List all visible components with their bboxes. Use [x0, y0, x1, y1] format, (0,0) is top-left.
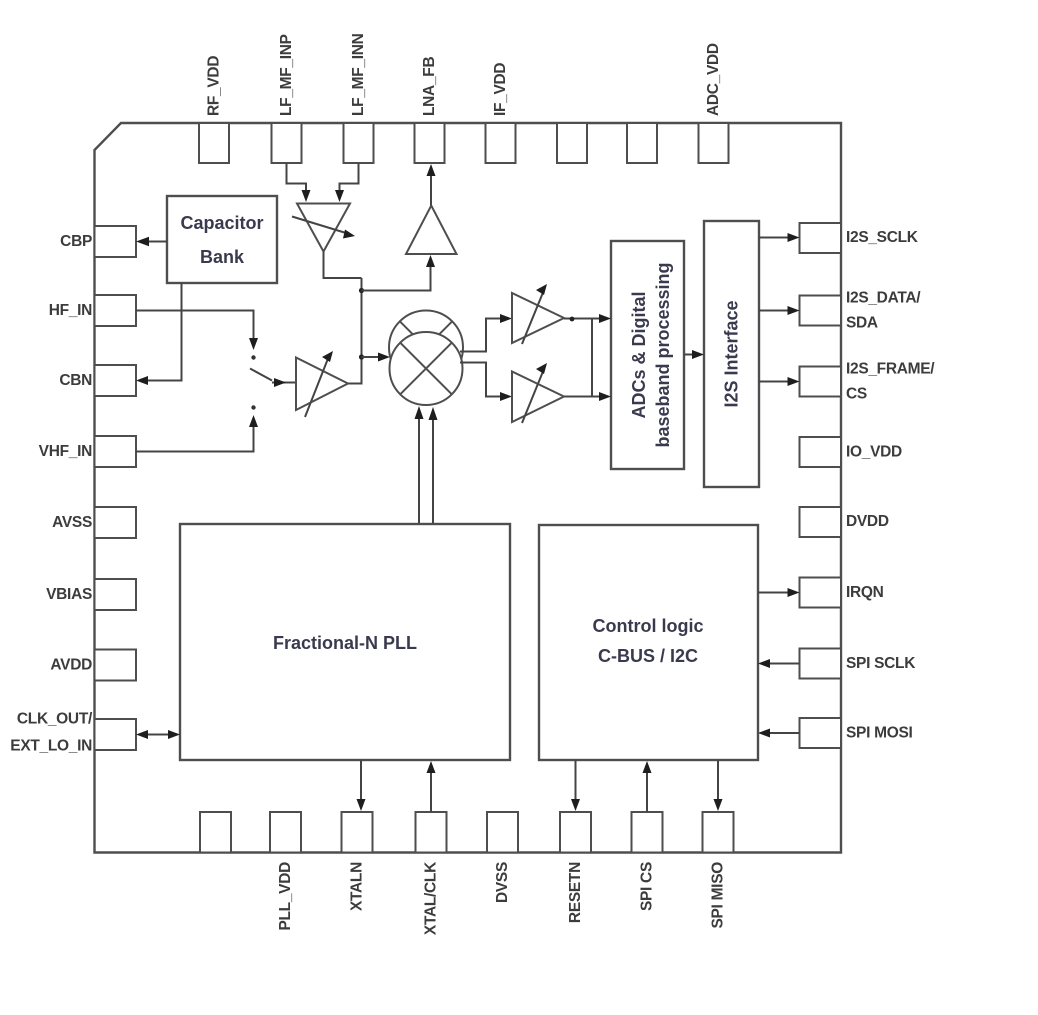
- svg-text:SPI SCLK: SPI SCLK: [846, 655, 916, 672]
- wire ADC box to I2S interface (arrow right): [684, 350, 704, 359]
- wire VHF_IN pin to switch bottom contact (arrow up): [136, 415, 258, 452]
- pin label IRQN: [846, 584, 884, 601]
- pin CLK_OUT/EXT_LO_IN (left): [95, 719, 137, 750]
- pin AVDD (left): [95, 650, 137, 681]
- svg-text:DVDD: DVDD: [846, 513, 889, 530]
- pin label XTALN: [349, 862, 366, 911]
- wire HF_IN pin to switch top contact (arrow down): [136, 311, 258, 351]
- svg-text:Bank: Bank: [200, 247, 245, 267]
- pin label PLL_VDD: [277, 862, 294, 931]
- wire Capacitor Bank to CBP pin (arrow left): [136, 237, 167, 247]
- pin label I2S_SCLK: [846, 229, 919, 246]
- wire SPI CS pin to Control logic (arrow up): [643, 761, 652, 812]
- svg-text:VHF_IN: VHF_IN: [39, 443, 92, 460]
- svg-text:AVDD: AVDD: [50, 657, 92, 674]
- pin PLL_VDD (bottom): [270, 812, 301, 853]
- pin label CBP: [60, 233, 92, 250]
- pin label HF_IN: [49, 302, 92, 319]
- pin label SPI CS: [639, 862, 656, 911]
- svg-text:CLK_OUT/: CLK_OUT/: [17, 711, 93, 728]
- pin I2S_DATA/SDA (right): [800, 296, 842, 326]
- wire I2S interface to I2S_FRAME pin (arrow right): [759, 377, 800, 386]
- pin label AVDD: [50, 657, 92, 674]
- pin label ADC_VDD: [705, 43, 722, 116]
- pin VHF_IN (left): [95, 436, 137, 467]
- svg-text:XTALN: XTALN: [349, 862, 366, 911]
- pin label XTAL/CLK: [423, 861, 440, 935]
- svg-text:AVSS: AVSS: [52, 514, 92, 531]
- pin DVSS (bottom): [487, 812, 518, 853]
- svg-text:DVSS: DVSS: [494, 862, 511, 903]
- pin label DVSS: [494, 862, 511, 903]
- wire SPI MOSI pin to Control logic (arrow left): [758, 729, 800, 738]
- pin top unlabeled 7: [627, 123, 657, 163]
- pin RF_VDD (top): [199, 123, 229, 163]
- pin ADC_VDD (top): [699, 123, 729, 163]
- pin I2S_FRAME/CS (right): [800, 367, 842, 397]
- svg-text:IF_VDD: IF_VDD: [492, 63, 509, 116]
- pin XTAL/CLK (bottom): [416, 812, 447, 853]
- pin label CLK_OUT/EXT_LO_IN: [10, 711, 93, 755]
- pin VBIAS (left): [95, 579, 137, 610]
- pin RESETN (bottom): [560, 812, 591, 853]
- wire CLK_OUT/EXT_LO_IN pin to PLL (double-headed arrow): [136, 730, 180, 739]
- wire SPI SCLK pin to Control logic (arrow left): [758, 659, 800, 668]
- pin XTALN (bottom): [342, 812, 373, 853]
- pin label IF_VDD: [492, 63, 509, 116]
- pin label SPI MISO: [710, 862, 727, 929]
- VGA A1 (HF/VHF front-end, variable gain amp): [296, 351, 348, 417]
- block Capacitor Bank U1: [167, 196, 277, 283]
- pin label SPI MOSI: [846, 725, 913, 742]
- svg-text:Control logic: Control logic: [593, 616, 704, 636]
- svg-text:LF_MF_INP: LF_MF_INP: [278, 34, 295, 116]
- pin IO_VDD (right): [800, 437, 842, 467]
- block Fractional-N PLL U2: [180, 524, 510, 760]
- pin label RESETN: [567, 862, 584, 923]
- switch SW1 bottom contact: [251, 405, 255, 409]
- wire PLL LO output to mixer (double lines, arrows up): [415, 406, 438, 524]
- pin top unlabeled 6: [557, 123, 587, 163]
- chip body outline (chamfered top-left): [95, 123, 842, 853]
- wire I/Q tie vertical bus: [591, 319, 593, 397]
- svg-text:C-BUS / I2C: C-BUS / I2C: [598, 646, 698, 666]
- svg-text:SPI MOSI: SPI MOSI: [846, 725, 913, 742]
- pin label I2S_FRAME/CS: [846, 361, 935, 403]
- pin LF_MF_INN (top): [344, 123, 374, 163]
- svg-text:I2S_SCLK: I2S_SCLK: [846, 229, 919, 246]
- wire Control logic to RESETN pin (arrow down): [571, 760, 580, 811]
- pin DVDD (right): [800, 507, 842, 537]
- svg-text:XTAL/CLK: XTAL/CLK: [423, 861, 440, 935]
- svg-text:LF_MF_INN: LF_MF_INN: [350, 33, 367, 116]
- pin label LF_MF_INN: [350, 33, 367, 116]
- svg-text:I2S Interface: I2S Interface: [722, 300, 742, 407]
- pin label I2S_DATA/SDA: [846, 290, 921, 332]
- switch SW1 lever and pole wire to VGA A1: [250, 369, 296, 388]
- svg-text:baseband processing: baseband processing: [653, 262, 673, 447]
- svg-text:Capacitor: Capacitor: [180, 213, 263, 233]
- wire VGA A2 output to J2 bus: [324, 252, 362, 279]
- pin bottom unlabeled 1: [200, 812, 231, 853]
- node J2 (LNA branch junction): [359, 288, 364, 293]
- wire Control logic to IRQN pin (arrow right): [758, 588, 800, 597]
- pin AVSS (left): [95, 507, 137, 538]
- wire I2S interface to I2S_DATA pin (arrow right): [759, 306, 800, 315]
- svg-text:SPI CS: SPI CS: [639, 862, 656, 911]
- block Control logic C-BUS / I2C U3: [539, 525, 758, 760]
- wire XTAL/CLK pin to PLL (arrow up): [427, 761, 436, 812]
- VGA A2 (LF/MF input amp, down-pointing): [292, 204, 355, 252]
- svg-text:PLL_VDD: PLL_VDD: [277, 862, 294, 931]
- pin label SPI SCLK: [846, 655, 916, 672]
- svg-text:ADC_VDD: ADC_VDD: [705, 43, 722, 116]
- svg-text:ADCs & Digital: ADCs & Digital: [629, 291, 649, 418]
- svg-text:CBP: CBP: [60, 233, 92, 250]
- pin LF_MF_INP (top): [272, 123, 302, 163]
- pin IRQN (right): [800, 578, 842, 608]
- wire LF_MF_INN pin to VGA A2 (arrow down): [335, 163, 359, 202]
- svg-text:CBN: CBN: [59, 372, 92, 389]
- pin SPI MOSI (right): [800, 718, 842, 748]
- pin label LNA_FB: [421, 57, 438, 116]
- pin label CBN: [59, 372, 92, 389]
- svg-text:LNA_FB: LNA_FB: [421, 57, 438, 116]
- wire I2S interface to I2S_SCLK pin (arrow right): [759, 233, 800, 242]
- svg-text:Fractional-N PLL: Fractional-N PLL: [273, 633, 417, 653]
- mixer M1 (quadrature mixer, two overlapped circles): [389, 311, 463, 406]
- pin HF_IN (left): [95, 295, 137, 326]
- pin label IO_VDD: [846, 444, 902, 461]
- wire LNA A3 output to LNA_FB pin (arrow up): [427, 164, 436, 206]
- block ADCs & Digital baseband processing U4: [611, 241, 684, 469]
- node J1 (mixer input junction): [359, 354, 364, 359]
- LNA A3 (up-pointing amp): [406, 206, 457, 255]
- svg-text:CS: CS: [846, 386, 867, 403]
- svg-text:RESETN: RESETN: [567, 862, 584, 923]
- pin label DVDD: [846, 513, 889, 530]
- pin SPI MISO (bottom): [703, 812, 734, 853]
- pin label VBIAS: [46, 586, 92, 603]
- pin I2S_SCLK (right): [800, 223, 842, 253]
- wire J2 to LNA input (arrow up): [362, 255, 436, 291]
- pin IF_VDD (top): [486, 123, 516, 163]
- wire VGA A4 output to ADC box (arrow right): [564, 314, 611, 323]
- wire J1 to mixer RF input (arrow right): [362, 353, 391, 362]
- node J3 on I output: [570, 317, 575, 322]
- wire VGA A1 output to LO node vertical bus: [348, 278, 362, 384]
- wire mixer I output to VGA A4 (arrow right): [460, 314, 512, 352]
- wire Capacitor Bank bottom to CBN pin (arrow left): [136, 283, 182, 385]
- pin SPI CS (bottom): [632, 812, 663, 853]
- svg-text:RF_VDD: RF_VDD: [206, 56, 223, 116]
- VGA A4 (I-path amp): [512, 284, 564, 344]
- svg-text:VBIAS: VBIAS: [46, 586, 92, 603]
- pin LNA_FB (top): [415, 123, 445, 163]
- block I2S interface U5: [704, 221, 759, 487]
- svg-text:SDA: SDA: [846, 315, 878, 332]
- pin CBN (left): [95, 365, 137, 396]
- pin label LF_MF_INP: [278, 34, 295, 116]
- wire VGA A5 output to ADC box (arrow right): [564, 392, 611, 401]
- pin label VHF_IN: [39, 443, 92, 460]
- svg-text:SPI MISO: SPI MISO: [710, 862, 727, 929]
- svg-text:EXT_LO_IN: EXT_LO_IN: [10, 738, 92, 755]
- pin SPI SCLK (right): [800, 649, 842, 679]
- svg-text:I2S_DATA/: I2S_DATA/: [846, 290, 921, 307]
- switch SW1 top contact: [251, 355, 255, 359]
- wire PLL to XTALN pin (arrow down): [357, 760, 366, 811]
- pin CBP (left): [95, 226, 137, 257]
- svg-text:HF_IN: HF_IN: [49, 302, 92, 319]
- pin label AVSS: [52, 514, 92, 531]
- svg-text:I2S_FRAME/: I2S_FRAME/: [846, 361, 935, 378]
- VGA A5 (Q-path amp): [512, 363, 564, 423]
- wire mixer Q output to VGA A5 (arrow right): [460, 363, 512, 402]
- svg-text:IO_VDD: IO_VDD: [846, 444, 902, 461]
- pin label RF_VDD: [206, 56, 223, 116]
- wire LF_MF_INP pin to VGA A2 (arrow down): [287, 163, 311, 202]
- svg-text:IRQN: IRQN: [846, 584, 884, 601]
- wire Control logic to SPI MISO pin (arrow down): [714, 760, 723, 811]
